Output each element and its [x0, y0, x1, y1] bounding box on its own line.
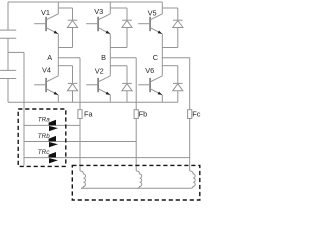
- wire collector vertical leg 3: [161, 2, 163, 14]
- transistor V4: [45, 78, 47, 92]
- wire lower emitter vertical leg 2: [109, 95, 111, 102]
- diode VD3 lower symbol: [173, 82, 183, 84]
- wire sensor row TRb: [24, 141, 136, 143]
- svg-text:V5: V5: [148, 8, 157, 17]
- wire phase line A: [58, 57, 80, 59]
- svg-text:Fa: Fa: [84, 109, 94, 118]
- wire collector vertical leg 1: [57, 2, 59, 14]
- wire between capacitors: [7, 38, 9, 70]
- wire collector vertical leg 2: [109, 2, 111, 14]
- capacitor C2: [0, 70, 16, 78]
- diode VD2 lower cathode lead: [126, 66, 128, 84]
- motor load box: [72, 165, 200, 200]
- wire emitter-diode link upper leg 3: [162, 47, 178, 49]
- diode VD1 upper cathode lead: [72, 8, 74, 20]
- svg-text:C: C: [153, 53, 158, 62]
- wire lower diode branch leg 1: [58, 65, 72, 67]
- wire midleg vertical leg 1: [57, 34, 59, 76]
- svg-text:TRa: TRa: [38, 117, 50, 124]
- svg-text:V2: V2: [95, 66, 104, 75]
- wire top DC rail: [8, 1, 162, 3]
- transistor V3: [97, 17, 99, 31]
- wire diode VD1 upper anode lead: [72, 28, 74, 48]
- svg-text:V4: V4: [42, 65, 51, 74]
- wire phase B vertical lower: [135, 119, 137, 171]
- diode VD2 upper cathode lead: [126, 8, 128, 20]
- wire diode VD2 upper anode lead: [126, 28, 128, 48]
- wire emitter-diode link upper leg 2: [110, 47, 127, 49]
- wire phase A vertical lower: [79, 119, 81, 171]
- inductor winding phase C: [190, 171, 196, 188]
- wire bottom DC rail: [8, 101, 178, 103]
- fuse Fc: [188, 110, 192, 119]
- wire left DC bus upper: [7, 2, 9, 30]
- wire star point line: [81, 187, 191, 189]
- wire capacitor midpoint branch: [8, 51, 24, 53]
- diode VD2 lower symbol: [122, 82, 132, 84]
- svg-text:V6: V6: [145, 66, 154, 75]
- inductor winding phase A: [80, 171, 86, 188]
- sensor arrow TRb: [49, 136, 56, 141]
- inductor winding phase B: [136, 171, 142, 188]
- wire diode VD1 lower anode lead: [72, 91, 74, 103]
- sensor arrow TRa: [49, 120, 56, 125]
- transistor V2: [97, 78, 99, 92]
- svg-text:V1: V1: [41, 8, 50, 17]
- diode VD1 lower cathode lead: [72, 66, 74, 84]
- diode VD2 upper symbol: [122, 19, 132, 21]
- transistor V6: [149, 78, 151, 92]
- diode VD1 upper symbol: [68, 19, 78, 21]
- wire midpoint vertical to sensor box: [23, 52, 25, 165]
- capacitor C1: [0, 30, 16, 38]
- wire upper diode branch leg 3: [162, 7, 178, 9]
- current sensor box TR: [18, 109, 66, 166]
- svg-text:V3: V3: [94, 7, 103, 16]
- diode VD3 upper symbol: [173, 19, 183, 21]
- wire midleg vertical leg 3: [161, 34, 163, 76]
- transistor V5: [149, 17, 151, 31]
- wire diode VD3 upper anode lead: [177, 28, 179, 48]
- svg-text:Fb: Fb: [139, 109, 148, 118]
- wire phase C vertical upper: [189, 58, 191, 110]
- wire sensor row TRa: [24, 124, 80, 126]
- wire phase C vertical lower: [189, 119, 191, 171]
- wire diode VD3 lower anode lead: [177, 91, 179, 103]
- wire phase line C: [162, 57, 189, 59]
- wire diode VD2 lower anode lead: [126, 91, 128, 103]
- diode VD3 upper cathode lead: [177, 8, 179, 20]
- fuse Fa: [78, 110, 82, 119]
- svg-text:Fc: Fc: [192, 109, 201, 118]
- svg-text:A: A: [47, 53, 52, 62]
- diode VD3 lower cathode lead: [177, 66, 179, 84]
- fuse Fb: [134, 110, 138, 119]
- wire midleg vertical leg 2: [109, 34, 111, 76]
- wire upper diode branch leg 1: [58, 7, 72, 9]
- wire upper diode branch leg 2: [110, 7, 127, 9]
- transistor V1: [45, 17, 47, 31]
- wire left DC bus lower: [7, 79, 9, 103]
- svg-text:TRb: TRb: [38, 133, 50, 140]
- wire lower emitter vertical leg 3: [161, 95, 163, 102]
- diode VD1 lower symbol: [68, 82, 78, 84]
- sensor arrow TRc: [49, 152, 56, 157]
- wire phase B vertical upper: [135, 58, 137, 110]
- wire phase A vertical upper: [79, 58, 81, 110]
- wire lower emitter vertical leg 1: [57, 95, 59, 102]
- wire phase line B: [110, 57, 136, 59]
- wire lower diode branch leg 2: [110, 65, 127, 67]
- wire sensor row TRc: [24, 157, 190, 159]
- wire lower diode branch leg 3: [162, 65, 178, 67]
- wire emitter-diode link upper leg 1: [58, 47, 72, 49]
- svg-text:B: B: [101, 53, 106, 62]
- svg-text:TRc: TRc: [38, 149, 50, 156]
